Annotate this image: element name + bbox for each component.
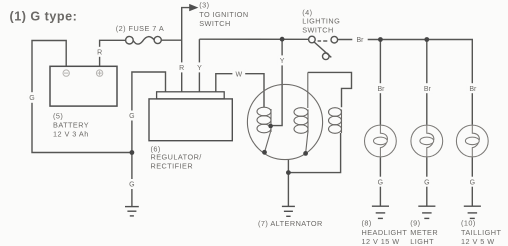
svg-text:R: R <box>179 65 184 72</box>
svg-text:TAILLIGHT: TAILLIGHT <box>461 228 501 237</box>
svg-text:LIGHTING: LIGHTING <box>302 17 340 26</box>
svg-text:RECTIFIER: RECTIFIER <box>151 161 194 170</box>
arrow to ignition switch <box>189 4 198 11</box>
svg-text:SWITCH: SWITCH <box>199 19 230 28</box>
svg-text:REGULATOR/: REGULATOR/ <box>151 153 203 162</box>
alternator charge coil L1 <box>257 107 271 152</box>
headlight lamp (8) <box>365 125 397 158</box>
svg-text:(3): (3) <box>199 0 209 9</box>
wire meter light to ground <box>426 157 428 206</box>
svg-text:Br: Br <box>378 86 386 93</box>
svg-text:G: G <box>470 179 475 186</box>
svg-text:(9): (9) <box>410 219 420 228</box>
svg-text:12 V 3 Ah: 12 V 3 Ah <box>53 130 89 139</box>
junction bus meter light <box>424 37 429 42</box>
svg-text:G: G <box>424 179 429 186</box>
lighting switch S1 dash 2 <box>323 40 327 42</box>
wire label W <box>232 69 245 79</box>
wire Y riser <box>198 39 200 92</box>
wire headlight to ground <box>379 157 381 206</box>
svg-text:SWITCH: SWITCH <box>302 26 333 35</box>
svg-text:Br: Br <box>357 37 365 44</box>
wire label R battery <box>95 47 103 57</box>
ground taillight <box>464 206 481 218</box>
svg-text:(4): (4) <box>302 8 312 17</box>
ground battery <box>125 207 139 216</box>
wire lighting coil feed <box>308 72 352 107</box>
svg-text:Br: Br <box>424 86 432 93</box>
label (8) headlight <box>362 219 408 246</box>
wire battery left loop (G) <box>32 41 132 153</box>
wire meter light drop <box>426 40 428 125</box>
svg-text:Y: Y <box>197 65 202 72</box>
lighting switch S1 lever <box>314 42 332 58</box>
fuse F1 element <box>133 37 154 44</box>
wire label Br taillight <box>466 83 479 93</box>
svg-text:G: G <box>378 179 383 186</box>
wire label Br bus <box>352 34 367 44</box>
junction coil L1 tap <box>268 124 273 129</box>
fuse F1 left cap <box>126 36 134 44</box>
label (5) battery <box>53 111 89 138</box>
wire label G battery ground <box>128 179 136 189</box>
alternator coil L2 <box>294 72 308 153</box>
svg-text:(7) ALTERNATOR: (7) ALTERNATOR <box>258 219 323 228</box>
svg-text:(1) G type:: (1) G type: <box>10 9 78 23</box>
svg-text:R: R <box>97 50 102 57</box>
wire label Y riser <box>195 62 203 72</box>
wire G regulator to ground <box>132 72 166 206</box>
wire bus switch to taillight corner <box>338 40 473 125</box>
svg-text:W: W <box>235 71 242 78</box>
wire alternator to ground <box>287 159 289 206</box>
wire label Y drop <box>278 55 286 65</box>
wire alternator bottom link <box>288 133 340 173</box>
meter light lamp (9) <box>411 125 443 158</box>
label (10) taillight <box>461 219 501 246</box>
svg-text:METER: METER <box>410 228 438 237</box>
regulator U1 body <box>149 99 232 141</box>
wire headlight drop <box>379 40 381 125</box>
junction coil L2 bottom <box>303 151 308 156</box>
svg-text:BATTERY: BATTERY <box>53 120 89 129</box>
junction bus headlight <box>378 37 383 42</box>
regulator U1 lid <box>157 92 225 99</box>
wire label Br meter <box>421 83 434 93</box>
svg-text:Y: Y <box>280 58 285 65</box>
svg-text:(2) FUSE 7 A: (2) FUSE 7 A <box>116 24 164 33</box>
wire fuse to node R <box>161 39 181 41</box>
wire battery plus to fuse <box>100 40 126 66</box>
svg-text:TO IGNITION: TO IGNITION <box>199 10 248 19</box>
label (3) to ignition switch <box>199 0 248 27</box>
wire label G taillight <box>468 177 476 187</box>
svg-text:G: G <box>29 95 34 102</box>
lighting switch S1 dash 1 <box>318 40 322 42</box>
wire label R riser <box>178 62 186 72</box>
wire taillight to ground <box>471 157 473 206</box>
battery B1 plus terminal <box>96 70 102 76</box>
svg-text:Br: Br <box>469 86 477 93</box>
svg-text:(5): (5) <box>53 111 63 120</box>
label (4) lighting switch <box>302 8 340 35</box>
alternator A1 stator circle <box>247 84 322 159</box>
wire Y drop to alternator <box>271 39 283 125</box>
battery B1 minus terminal <box>63 70 69 76</box>
junction bus Y drop <box>280 37 285 42</box>
wire bus to lighting switch <box>199 38 308 40</box>
svg-text:G: G <box>129 182 134 189</box>
taillight lamp (10) <box>456 125 488 158</box>
junction battery ground <box>130 150 135 155</box>
lighting switch S1 contact lower <box>323 53 330 60</box>
lighting switch S1 contact right <box>331 36 338 43</box>
svg-text:(8): (8) <box>362 219 372 228</box>
ground meter light <box>418 206 435 218</box>
svg-text:(10): (10) <box>461 219 476 228</box>
wire R riser to ignition <box>182 8 191 92</box>
wire label Br headlight <box>374 83 387 93</box>
svg-text:HEADLIGHT: HEADLIGHT <box>362 228 408 237</box>
svg-text:LIGHT: LIGHT <box>410 237 434 246</box>
svg-text:G: G <box>129 113 134 120</box>
wire label G left loop <box>28 92 36 103</box>
svg-text:12 V 15 W: 12 V 15 W <box>362 237 400 246</box>
junction coil L1 bottom <box>262 150 267 155</box>
wire W from regulator to alternator <box>216 74 264 108</box>
fuse F1 right cap <box>154 36 161 43</box>
lighting coil L3 <box>329 108 342 134</box>
wire label G meter <box>423 177 431 187</box>
battery B1 body <box>50 66 117 106</box>
lighting switch S1 contact left <box>309 36 316 43</box>
wire label G regulator <box>128 111 136 121</box>
ground alternator <box>282 206 295 216</box>
svg-text:12 V 5 W: 12 V 5 W <box>461 237 495 246</box>
wire label G headlight <box>376 177 384 187</box>
label (6) regulator rectifier <box>151 145 203 171</box>
ground headlight <box>372 206 389 218</box>
junction alternator ground <box>286 170 291 175</box>
label (9) meter light <box>410 219 438 246</box>
